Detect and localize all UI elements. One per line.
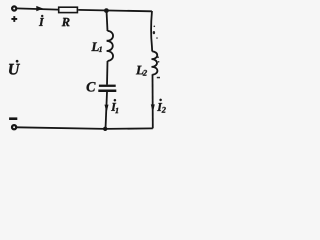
wire coil to capacitor xyxy=(106,61,109,85)
inductor L2 coil xyxy=(152,51,158,74)
node junction dot bottom xyxy=(103,127,107,131)
node junction dot top xyxy=(104,8,109,13)
wire resistor to top-right corner xyxy=(78,10,152,11)
bottom wire xyxy=(17,127,153,129)
current arrow I1 xyxy=(105,105,109,113)
capacitor C1 bottom plate xyxy=(98,90,116,93)
scan speck near right branch xyxy=(153,26,160,79)
capacitor C1 top plate xyxy=(99,85,116,87)
label I (dot above) xyxy=(39,15,44,26)
resistor R1 body xyxy=(59,7,78,12)
current arrow I xyxy=(36,6,43,11)
terminal - (bottom-left) xyxy=(12,125,16,129)
label I1 (dot above) xyxy=(111,99,118,113)
current arrow I2 xyxy=(151,104,155,112)
label I2 (dot above) xyxy=(157,99,166,113)
label L1 xyxy=(91,42,101,51)
wire right branch down xyxy=(151,11,152,52)
wire middle branch upper xyxy=(107,11,108,31)
wire capacitor to bottom node xyxy=(106,92,108,129)
minus sign xyxy=(9,117,17,120)
label U (dot above) xyxy=(9,60,20,75)
inductor L1 coil xyxy=(107,31,113,61)
wire L2 to bottom-right corner xyxy=(152,74,154,128)
label R xyxy=(62,18,70,26)
wire top-left segment xyxy=(16,8,58,9)
label C xyxy=(87,82,96,91)
terminal + (top-left) xyxy=(12,6,16,10)
label L2 xyxy=(136,66,147,76)
plus sign xyxy=(11,16,17,22)
